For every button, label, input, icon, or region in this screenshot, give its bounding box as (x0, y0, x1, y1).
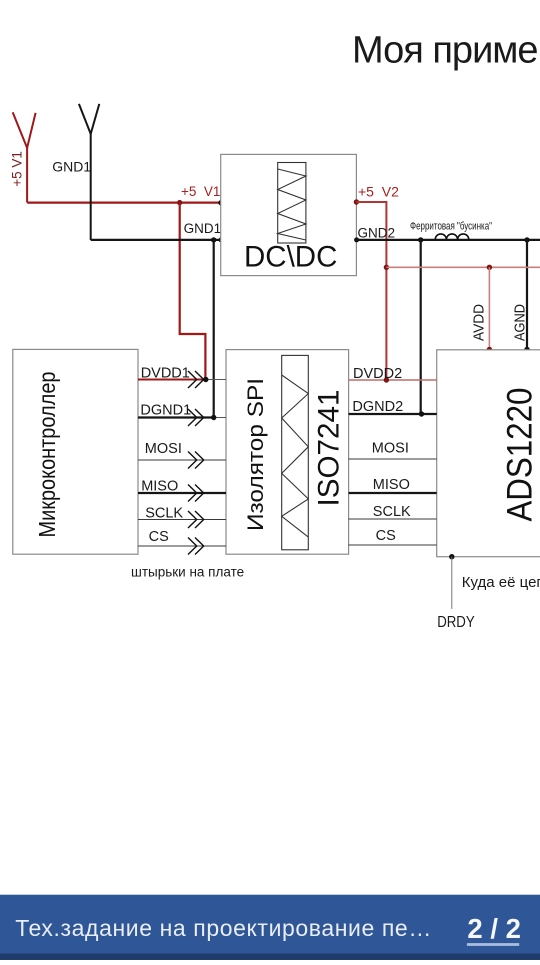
svg-text:GND1: GND1 (52, 158, 91, 174)
svg-text:2 / 2: 2 / 2 (467, 913, 521, 944)
wire AVDD rail (386, 266, 540, 268)
wire MOSI (left) (138, 459, 226, 461)
svg-text:DRDY: DRDY (437, 614, 475, 631)
svg-text:Микроконтроллер: Микроконтроллер (34, 372, 60, 538)
wire MISO (left) (138, 492, 226, 494)
svg-text:Тех.задание на проектирование: Тех.задание на проектирование пе… (15, 915, 432, 941)
svg-text:GND2: GND2 (358, 226, 396, 241)
svg-text:DVDD2: DVDD2 (353, 366, 402, 382)
wire SCLK (right) (349, 518, 437, 520)
svg-text:SCLK: SCLK (145, 506, 183, 522)
svg-text:CS: CS (149, 529, 169, 545)
pin dot DC/DC +5V1 (218, 200, 223, 205)
svg-text:штырьки на плате: штырьки на плате (131, 565, 244, 580)
converter U1 DC\DC (221, 154, 357, 275)
wire SCLK (left) (138, 519, 226, 521)
node junction DVDD2 (384, 377, 389, 382)
wire +5V2 to DVDD2 (356, 202, 386, 380)
svg-text:ADS1220: ADS1220 (500, 388, 539, 522)
svg-text:MOSI: MOSI (372, 440, 409, 456)
ferrite bead FB1 (435, 234, 469, 240)
wire DGND2 drop (420, 240, 422, 414)
svg-text:DGND2: DGND2 (352, 399, 403, 415)
pin header chevron DVDD1 (188, 371, 204, 388)
wire DGND1 drop (213, 240, 215, 418)
svg-text:Куда её цеплять: Куда её цеплять (462, 574, 540, 591)
pin header chevron MISO (188, 485, 204, 502)
wire DGND1 to ISO pin (214, 417, 226, 419)
svg-text:CS: CS (376, 528, 396, 544)
svg-text:MOSI: MOSI (145, 441, 182, 457)
wire DGND2 (349, 413, 437, 415)
node junction DVDD1 (203, 377, 208, 382)
svg-text:DGND1: DGND1 (140, 402, 191, 418)
adc U4 ADS1220 (437, 350, 540, 557)
wire AVDD drop (488, 267, 490, 349)
pin header chevron SCLK (188, 511, 204, 528)
power flag GND1 antenna (79, 104, 99, 240)
svg-text:Ферритовая "бусинка": Ферритовая "бусинка" (410, 221, 492, 233)
wire DVDD1 (138, 379, 205, 381)
svg-text:+5 V1: +5 V1 (181, 184, 220, 199)
svg-text:Моя примерная: Моя примерная (352, 30, 540, 72)
wire GND2 rail (356, 239, 540, 241)
wire DVDD1 drop (red jog) (180, 203, 206, 380)
node junction DGND2 (419, 411, 424, 416)
wire DGND1 (138, 416, 214, 418)
node junction +5V1 / DVDD1 (177, 200, 182, 205)
wire DRDY (451, 557, 453, 609)
svg-text:MISO: MISO (141, 479, 178, 495)
svg-text:+5 V2: +5 V2 (358, 184, 399, 200)
node DRDY on ADS bottom (449, 554, 454, 559)
node junction AVDD (487, 265, 492, 270)
svg-text:SCLK: SCLK (373, 504, 411, 520)
node junction GND2 / DGND2 (418, 237, 423, 242)
node junction GND2 / AGND (524, 237, 529, 242)
svg-text:DVDD1: DVDD1 (141, 365, 190, 381)
wire DVDD1 to ISO pin (205, 379, 226, 381)
wire AGND drop (526, 240, 528, 350)
wire CS (left) (138, 545, 226, 547)
pin dot DC/DC GND2 (354, 237, 359, 242)
pin dot DC/DC +5V2 (354, 199, 359, 204)
wire DVDD2 (349, 379, 437, 381)
svg-text:AVDD: AVDD (472, 304, 488, 341)
pin dot ADS AGND (524, 347, 529, 352)
pin header chevron CS (188, 538, 204, 555)
pin dot DC/DC GND1 (219, 237, 224, 242)
wire MISO (right) (349, 492, 437, 494)
bottom bar shadow strip (0, 954, 540, 961)
wire GND1 rail (91, 239, 221, 241)
isolator U3 ISO7241 (226, 350, 349, 555)
svg-text:GND1: GND1 (184, 221, 222, 236)
svg-text:Изолятор SPI: Изолятор SPI (243, 378, 268, 531)
node junction DGND1 (211, 415, 216, 420)
pin header chevron DGND1 (188, 409, 204, 426)
node junction GND1 / DGND1 (211, 237, 216, 242)
svg-text:+5 V1: +5 V1 (10, 151, 25, 187)
wire CS (right) (349, 544, 437, 546)
app bottom bar (0, 895, 540, 960)
page indicator underline (467, 943, 519, 946)
wire +5V1 rail (27, 202, 221, 204)
svg-text:AGND: AGND (513, 304, 529, 341)
microcontroller U2 (13, 349, 138, 554)
pin header chevron MOSI (188, 452, 204, 469)
power flag +5V1 antenna (13, 112, 36, 202)
node junction +5V2 / AVDD rail (384, 265, 389, 270)
svg-text:ISO7241: ISO7241 (313, 390, 346, 507)
wire MOSI (right) (349, 458, 437, 460)
pin dot ADS AVDD (487, 347, 492, 352)
svg-text:MISO: MISO (373, 477, 410, 493)
svg-text:DC\DC: DC\DC (244, 241, 337, 274)
